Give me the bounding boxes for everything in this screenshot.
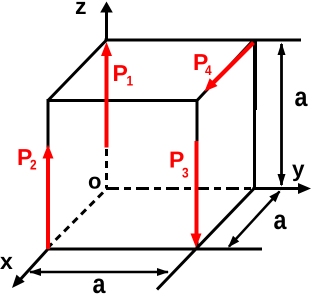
edge A-B top back edge with dimension extension line bbox=[105, 39, 302, 42]
force P2 arrowhead bbox=[43, 145, 54, 159]
dimension line a right vertical bbox=[280, 44, 283, 185]
force P2 subscript 2 bbox=[30, 160, 36, 170]
x axis label bbox=[0, 257, 12, 269]
z axis line bbox=[105, 11, 108, 40]
edge B-G back right vertical edge bbox=[253, 40, 256, 189]
force P1 arrowhead bbox=[101, 42, 112, 56]
force P1 shaft bbox=[105, 54, 109, 148]
force P3 shaft bbox=[195, 141, 199, 234]
z axis label bbox=[76, 2, 86, 14]
dimension arrowhead bottom right bbox=[157, 268, 169, 276]
force P4 shaft bbox=[212, 43, 254, 85]
dimension line a diagonal bbox=[229, 192, 280, 247]
dimension label a bottom bbox=[93, 278, 105, 293]
force P4 label bbox=[195, 54, 208, 70]
dimension arrowhead bottom left bbox=[29, 268, 41, 276]
edge C-E front left vertical edge bbox=[47, 101, 50, 250]
y axis arrowhead bbox=[298, 183, 311, 194]
force P1 subscript 1 bbox=[127, 76, 133, 86]
origin label o bbox=[89, 177, 101, 189]
y axis label bbox=[292, 165, 304, 182]
force P4 arrowhead bbox=[205, 78, 218, 91]
force P4 subscript 4 bbox=[205, 65, 211, 75]
edge D-F front right vertical edge bbox=[196, 101, 199, 250]
edge B-G upper thicker overlap segment bbox=[253, 40, 257, 110]
force P2 label bbox=[19, 149, 32, 165]
dimension arrowhead diagonal top bbox=[269, 191, 280, 203]
x axis arrowhead bbox=[12, 275, 25, 288]
dashed hidden edge O-E bbox=[49, 193, 103, 247]
y axis line bbox=[253, 187, 301, 190]
dimension arrowhead right bottom bbox=[278, 174, 286, 187]
edge G-F bottom right depth edge extended down-left bbox=[157, 189, 254, 290]
x axis line bbox=[18, 249, 48, 282]
dashed hidden edge O-G bbox=[106, 187, 252, 190]
dimension label a right bbox=[295, 91, 307, 106]
edge E-F front bottom edge extended right bbox=[47, 248, 263, 251]
z axis arrowhead bbox=[100, 2, 113, 13]
dashed hidden edge A-O lower visible part bbox=[105, 149, 108, 189]
force P3 label bbox=[171, 152, 184, 168]
force P2 shaft bbox=[46, 157, 50, 249]
dimension arrowhead diagonal bottom bbox=[228, 236, 239, 248]
force P1 label bbox=[114, 65, 127, 81]
edge C-D front top edge bbox=[47, 99, 199, 102]
force P3 subscript 3 bbox=[182, 168, 188, 178]
dimension arrowhead right top bbox=[278, 43, 286, 56]
edge A-C top left depth edge bbox=[48, 40, 107, 101]
dimension label a diagonal bbox=[274, 214, 286, 229]
force P3 arrowhead bbox=[191, 234, 202, 248]
dimension line a bottom horizontal bbox=[30, 271, 168, 274]
edge B-D top right depth edge bbox=[197, 40, 254, 101]
